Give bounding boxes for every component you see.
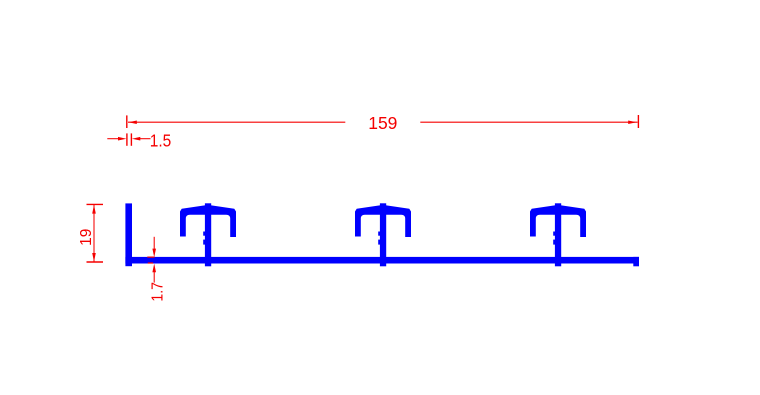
dim 19: vertical line <box>93 205 95 262</box>
dim 159: line left segment <box>128 121 345 123</box>
T-post 2 <box>355 203 411 266</box>
dim 1.7: top edge dash <box>147 256 154 258</box>
svg-text:1.7: 1.7 <box>148 282 166 302</box>
dim 1.5: right outside line <box>140 138 151 140</box>
dim 159: left tick <box>126 115 128 128</box>
dim 1.5: right arrow <box>132 137 140 141</box>
svg-text:1.5: 1.5 <box>150 132 172 151</box>
dim 159: right tick <box>637 115 639 128</box>
svg-text:159: 159 <box>368 113 397 133</box>
dim 1.5: tick b <box>130 133 132 145</box>
dim 19: top arrow <box>92 205 96 214</box>
dim 19: bottom arrow <box>92 253 96 262</box>
left flange <box>125 203 132 266</box>
right end lip <box>633 257 639 266</box>
dim 1.5: left arrow <box>118 137 126 141</box>
dim 19: top tick <box>87 203 104 205</box>
dim 1.5: left outside line <box>107 138 118 140</box>
dim 1.5: tick a <box>126 133 128 145</box>
dim 1.7: bottom edge dash <box>148 262 153 264</box>
dim 19: bottom tick <box>87 261 104 263</box>
dim 1.7: upper arrow <box>152 249 156 258</box>
dim 1.7: lower arrow <box>152 264 156 273</box>
dim 1.7: upper line <box>153 237 155 251</box>
dim 159: right arrow <box>628 121 636 125</box>
svg-text:19: 19 <box>78 229 95 246</box>
T-post 1 <box>180 203 236 266</box>
T-post 3 <box>530 203 586 266</box>
base bar <box>125 257 639 264</box>
dim 159: line right segment <box>420 121 637 123</box>
dim 1.7: lower line <box>153 271 155 283</box>
dim 159: left arrow <box>128 121 136 125</box>
